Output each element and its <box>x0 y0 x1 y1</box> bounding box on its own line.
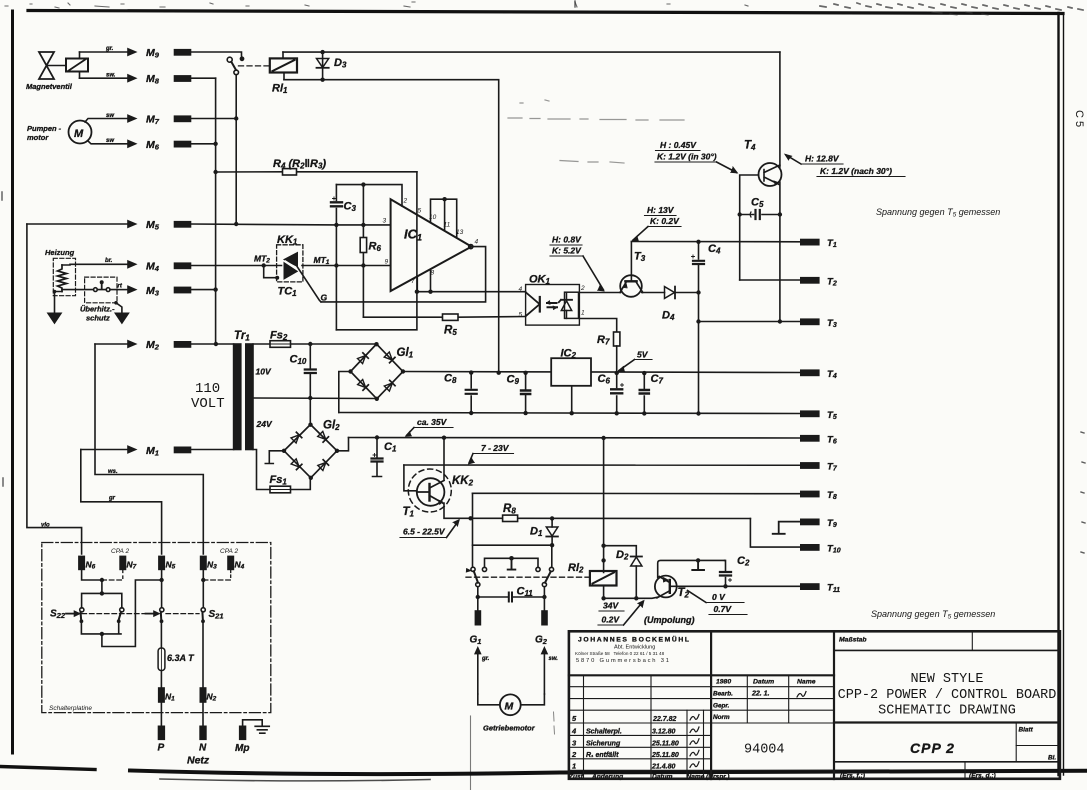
junction supply drop on bus <box>497 371 501 375</box>
transistor T3 <box>620 251 646 297</box>
Massstab strip <box>834 649 1060 651</box>
label 5V <box>618 350 652 372</box>
wire to M5 from vio line <box>27 221 136 227</box>
Mp earth connection <box>243 720 263 727</box>
Gl2 plus riser to 35V bus <box>337 438 349 451</box>
terminal P <box>158 702 165 754</box>
1980 date grid <box>711 675 834 723</box>
terminal M7 <box>146 114 191 127</box>
junction 35V/KK2 <box>442 436 446 440</box>
svg-text:motor: motor <box>27 133 49 142</box>
terminal G1 <box>470 611 482 646</box>
resistor R8 <box>471 503 751 522</box>
junction top/R6 column <box>361 182 365 186</box>
drawing name box CPP 2 <box>834 761 1060 763</box>
terminal G2 <box>535 611 548 646</box>
svg-text:T9: T9 <box>827 518 837 529</box>
svg-text:G1: G1 <box>470 635 482 646</box>
svg-text:4: 4 <box>475 239 479 246</box>
wire row T1 <box>631 241 800 243</box>
RI2 drop from 35V bus <box>601 436 605 440</box>
svg-text:R4 (R2‖R3): R4 (R2‖R3) <box>273 158 326 171</box>
junction M2/A <box>214 342 218 346</box>
svg-text:5870 Gummersbach 31: 5870 Gummersbach 31 <box>576 658 671 664</box>
svg-text:Zust: Zust <box>568 774 584 781</box>
callout H:12.8V K:1.2V(nach 30) <box>785 154 905 177</box>
S21 right pole <box>201 608 223 623</box>
dashed actuator link to RI2 <box>466 576 589 578</box>
svg-text:C5: C5 <box>751 197 764 210</box>
svg-text:21.4.80: 21.4.80 <box>651 763 675 770</box>
svg-text:MT1: MT1 <box>314 255 330 266</box>
svg-text:M1: M1 <box>146 445 159 458</box>
svg-text:9: 9 <box>385 259 389 266</box>
margin tick marks <box>2 1 1085 553</box>
svg-text:K: 0.2V: K: 0.2V <box>650 216 680 226</box>
svg-text:2: 2 <box>580 285 585 292</box>
wire sw to M7 <box>85 113 136 122</box>
wire row T7 <box>404 464 801 466</box>
ground below heater <box>48 313 62 324</box>
svg-text:5: 5 <box>519 312 523 319</box>
svg-text:5V: 5V <box>637 350 649 360</box>
connector N3 <box>201 556 218 570</box>
label S22 with actuator arrow <box>50 609 81 620</box>
svg-text:25.11.80: 25.11.80 <box>651 740 679 747</box>
svg-text:Überhitz.-: Überhitz.- <box>80 305 115 314</box>
terminal M4 <box>146 261 191 274</box>
terminal M8 <box>146 73 191 86</box>
wire M8 to bus A <box>191 77 216 79</box>
thermal switch Ueberhitzschutz <box>62 277 122 322</box>
fuse 6.3A T <box>158 621 195 688</box>
svg-text:R8: R8 <box>503 503 516 516</box>
junction C3/M5 <box>334 223 338 227</box>
10V tap wire <box>253 397 377 400</box>
wire vio M5 feed <box>27 224 82 554</box>
junction M3/A <box>213 287 217 291</box>
svg-text:N6: N6 <box>86 560 96 571</box>
svg-text:10V: 10V <box>256 367 272 377</box>
svg-text:C2: C2 <box>737 555 750 568</box>
heater Heizung <box>45 248 136 313</box>
terminal T8 <box>801 490 837 501</box>
svg-text:Abt. Entwicklung: Abt. Entwicklung <box>614 645 655 651</box>
terminal T11 <box>801 583 840 594</box>
wire pins7/8 to OK1 pin4 <box>417 291 526 293</box>
svg-text:110: 110 <box>195 381 220 397</box>
35V bus <box>349 437 801 440</box>
svg-text:M2: M2 <box>146 339 160 352</box>
KK2 heatsink dashed circle <box>408 469 451 512</box>
capacitor C1 <box>372 435 397 476</box>
svg-text:T11: T11 <box>827 583 840 594</box>
svg-text:TC1: TC1 <box>278 286 298 299</box>
svg-text:N5: N5 <box>166 560 176 571</box>
diode D1 <box>530 516 558 547</box>
svg-text:N: N <box>199 743 207 754</box>
fuse Fs2 <box>253 330 377 348</box>
svg-text:S21: S21 <box>209 609 224 620</box>
S22 loop bottom <box>81 621 121 634</box>
S21 left pole <box>146 608 164 623</box>
svg-text:D1: D1 <box>530 526 543 539</box>
svg-text:S22: S22 <box>50 609 66 620</box>
OK1 pin1 wire to R7 <box>579 319 616 333</box>
svg-text:R₁ entfällt: R₁ entfällt <box>586 752 619 759</box>
svg-text:gr: gr <box>108 496 116 502</box>
svg-text:T2: T2 <box>678 587 690 600</box>
svg-text:C8: C8 <box>444 373 457 386</box>
junction M6/A <box>213 142 217 146</box>
motor loop left with arrow <box>475 647 500 705</box>
wire sw to M8 <box>80 72 136 81</box>
diode D2 <box>616 549 642 601</box>
svg-text:7 - 23V: 7 - 23V <box>481 443 510 453</box>
svg-text:Rl1: Rl1 <box>272 83 288 96</box>
capacitor C7 <box>640 371 664 416</box>
svg-text:MT2: MT2 <box>254 254 270 265</box>
wire pin9 (MT1 line) <box>302 265 391 267</box>
svg-text:R5: R5 <box>444 325 457 338</box>
svg-text:K: 5.2V: K: 5.2V <box>552 246 582 256</box>
fuse Fs1 <box>253 450 310 493</box>
svg-text:Datum: Datum <box>652 774 673 781</box>
main title box <box>834 721 1060 723</box>
svg-text:3: 3 <box>572 738 577 747</box>
capacitor C6 <box>598 371 624 416</box>
switch levers <box>466 569 551 583</box>
callout 0V 0.7V <box>688 591 748 615</box>
svg-text:N4: N4 <box>235 560 245 571</box>
svg-text:Rl2: Rl2 <box>568 562 584 575</box>
svg-text:VOLT: VOLT <box>191 396 225 412</box>
relay RI1 <box>270 52 297 95</box>
svg-text:gr.: gr. <box>481 656 490 662</box>
svg-text:0.7V: 0.7V <box>714 604 733 614</box>
MT2 lower stub <box>264 266 278 278</box>
svg-text:7: 7 <box>411 278 415 285</box>
svg-text:Maßstab: Maßstab <box>839 637 867 644</box>
svg-text:Schalterpl.: Schalterpl. <box>586 729 622 736</box>
svg-text:C9: C9 <box>507 374 520 387</box>
bridge rectifier Gl1 <box>348 342 413 401</box>
earth symbol <box>255 726 269 733</box>
svg-text:T1: T1 <box>403 506 415 519</box>
T1 collector drop from 35V bus <box>443 438 445 480</box>
svg-text:Name: Name <box>797 679 816 686</box>
connector N5 <box>159 556 176 570</box>
Gl2 left stub <box>265 451 284 464</box>
dashed actuator link to RI1 <box>239 65 269 67</box>
svg-text:gr.: gr. <box>105 46 114 52</box>
svg-text:T3: T3 <box>634 251 646 264</box>
motor Pumpenmotor <box>27 121 92 144</box>
T1 base wire from T7 row <box>404 465 417 491</box>
svg-text:sw.: sw. <box>106 72 116 78</box>
svg-text:vio: vio <box>41 523 50 529</box>
svg-text:Spannung gegen T5 gemessen: Spannung gegen T5 gemessen <box>876 207 1000 218</box>
svg-text:22. 1.: 22. 1. <box>751 691 770 698</box>
S22 lower joints <box>80 619 84 623</box>
svg-text:N3: N3 <box>207 560 217 571</box>
feed to S22 loop <box>101 580 103 593</box>
output wire to G line <box>321 247 486 302</box>
svg-text:Schalterplatine: Schalterplatine <box>49 705 92 712</box>
svg-text:T4: T4 <box>744 140 756 153</box>
motor loop right with arrow <box>521 647 558 705</box>
svg-text:D2: D2 <box>616 549 629 562</box>
svg-text:(Ers. d.:): (Ers. d.:) <box>969 773 996 780</box>
svg-text:T2: T2 <box>827 276 837 287</box>
top supply rail <box>283 51 780 53</box>
svg-text:Tr1: Tr1 <box>234 330 250 343</box>
revision grid rows <box>569 687 834 711</box>
svg-text:C4: C4 <box>708 243 721 256</box>
svg-text:C7: C7 <box>651 373 664 386</box>
dashed link N7 <box>102 569 123 580</box>
terminal T7 <box>801 462 838 473</box>
terminal T2 <box>801 276 837 287</box>
capacitor C11 <box>476 586 547 602</box>
switch pole contacts <box>471 567 554 571</box>
svg-text:Pumpen -: Pumpen - <box>27 124 62 133</box>
capacitor C9 <box>507 371 531 416</box>
svg-text:Bearb.: Bearb. <box>713 691 733 698</box>
wire gr to M9 <box>80 46 136 55</box>
connector N1 <box>159 688 175 703</box>
N3 drop to S21 <box>202 569 204 607</box>
svg-text:Änderung: Änderung <box>591 773 623 781</box>
terminal M6 <box>146 139 191 152</box>
Gl1 minus drop <box>339 372 351 413</box>
svg-text:T3: T3 <box>827 318 837 329</box>
wire M4 to triac MT2 <box>191 265 282 267</box>
top wire to pin2 <box>336 185 402 206</box>
N6 drop <box>82 569 102 580</box>
svg-text:SCHEMATIC DRAWING: SCHEMATIC DRAWING <box>878 704 1016 719</box>
svg-text:4: 4 <box>519 286 523 293</box>
svg-text:Bl.: Bl. <box>1048 755 1056 762</box>
scan noise top <box>5 2 1083 15</box>
bridge rectifier Gl2 <box>282 420 340 480</box>
wire rt to M3 <box>117 284 136 293</box>
svg-text:24V: 24V <box>256 419 273 429</box>
wire row T10 <box>750 519 800 548</box>
svg-text:G2: G2 <box>535 635 548 646</box>
svg-text:T10: T10 <box>827 543 841 554</box>
junction R6/pin9 wire <box>361 263 365 267</box>
svg-text:Blatt: Blatt <box>1019 727 1034 734</box>
IC1 pins 10/11/13 strap <box>431 197 457 238</box>
0V bus <box>339 413 801 414</box>
svg-text:Gl2: Gl2 <box>323 420 340 433</box>
svg-text:CPA 2: CPA 2 <box>220 548 238 555</box>
junction MT2 stub <box>262 263 266 267</box>
capacitor C10 <box>290 344 316 425</box>
svg-text:Name: Name <box>687 774 705 781</box>
junction Fs2/C10 <box>308 342 312 346</box>
terminal T1 <box>801 238 837 249</box>
stray dashed artifact <box>508 100 684 163</box>
svg-text:M: M <box>505 701 514 713</box>
T1 emitter to R8 wire <box>444 503 471 518</box>
main 5V bus <box>403 372 801 373</box>
svg-text:Sicherung: Sicherung <box>586 740 621 747</box>
op-amp IC1 <box>383 198 479 292</box>
terminal N <box>199 702 207 754</box>
T4 collector from top rail <box>779 52 781 167</box>
svg-text:C3: C3 <box>344 201 357 214</box>
svg-text:Norm: Norm <box>713 714 730 721</box>
svg-text:Netz: Netz <box>187 755 210 767</box>
terminal T4 <box>801 369 837 380</box>
svg-text:H: 12.8V: H: 12.8V <box>805 154 840 164</box>
terminal M9 <box>146 47 191 60</box>
svg-text:D3: D3 <box>334 57 347 70</box>
svg-text:0 V: 0 V <box>712 592 726 602</box>
junction M7/B <box>234 116 238 120</box>
svg-text:C6: C6 <box>598 373 611 386</box>
svg-text:34V: 34V <box>603 601 619 611</box>
wire M5 to C3 column <box>191 223 337 226</box>
svg-text:M6: M6 <box>146 139 160 152</box>
company box <box>569 674 834 676</box>
svg-text:JOHANNES BOCKEMÜHL: JOHANNES BOCKEMÜHL <box>578 635 691 644</box>
transistor T2 <box>655 576 690 600</box>
junction tap/C10 <box>308 396 312 400</box>
svg-text:ws.: ws. <box>108 469 118 475</box>
svg-text:1980: 1980 <box>716 679 731 686</box>
svg-text:Datum: Datum <box>753 679 774 686</box>
T4 base wire <box>740 175 759 280</box>
svg-text:T1: T1 <box>827 238 837 249</box>
junction T3/T4emitter <box>778 319 782 323</box>
wire gr M1 feed <box>81 446 162 554</box>
motor switch supply rail <box>473 544 553 546</box>
wire row T8 <box>473 492 801 494</box>
connector N7 <box>120 556 137 570</box>
right contact feed <box>551 545 553 567</box>
bus B vertical <box>235 75 237 224</box>
IC1 output bubble pin4 <box>469 245 473 249</box>
svg-text:M3: M3 <box>146 285 160 298</box>
wire pin3 <box>336 224 390 226</box>
valve symbol Magnetventil <box>39 52 66 79</box>
dashed actuator S22-S21 <box>82 613 199 615</box>
svg-text:5: 5 <box>572 714 577 723</box>
svg-text:T5: T5 <box>827 410 837 421</box>
terminal T10 <box>801 543 841 554</box>
transformer Tr1 <box>191 330 273 450</box>
triac TC1 <box>284 252 299 279</box>
svg-text:br.: br. <box>105 258 113 264</box>
svg-text:NEW STYLE: NEW STYLE <box>911 672 984 687</box>
svg-text:sw: sw <box>106 113 114 119</box>
bus A vertical <box>215 78 217 344</box>
T2 collector wire to T11 <box>671 585 801 587</box>
R6 column vertical <box>362 185 364 318</box>
svg-text:C10: C10 <box>290 354 307 367</box>
S22 loop top <box>82 593 122 608</box>
T9 test stub <box>773 522 801 534</box>
junction pin7 rail <box>415 290 419 294</box>
svg-text:M: M <box>74 128 84 140</box>
resistor R4 (R2 parallel R3) <box>213 158 416 175</box>
svg-text:schutz: schutz <box>86 314 110 323</box>
RI1 coil return wire <box>284 80 499 372</box>
resistor R6 <box>360 238 381 254</box>
motor Getriebemotor <box>483 694 536 732</box>
capacitor C5 <box>738 197 783 220</box>
IC1 pin7 stub <box>416 277 418 292</box>
terminal M5 <box>146 219 191 232</box>
svg-text:CPP 2: CPP 2 <box>910 740 955 756</box>
svg-text:M9: M9 <box>146 47 160 60</box>
D2 branch wire <box>604 546 637 556</box>
T4 emitter drop <box>779 182 781 321</box>
G2 drop <box>543 587 545 611</box>
optocoupler OK1 <box>519 274 586 326</box>
svg-text:K: 1.2V (in 30°): K: 1.2V (in 30°) <box>657 152 717 162</box>
wire R4 drop right side of IC1 box <box>336 172 417 330</box>
svg-text:22.7.82: 22.7.82 <box>652 716 676 723</box>
junction R6/pin3 wire <box>361 223 365 227</box>
terminal T5 <box>801 410 837 421</box>
wire ws M2 feed <box>95 341 203 554</box>
solenoid coil of Magnetventil <box>66 52 88 78</box>
svg-text:3: 3 <box>383 218 387 225</box>
connector N4 <box>228 556 245 570</box>
svg-text:M7: M7 <box>146 114 160 127</box>
svg-text:Gl1: Gl1 <box>397 347 414 360</box>
svg-text:Fs2: Fs2 <box>270 330 288 343</box>
callout 34V 0.2V <box>598 601 644 626</box>
wire M3 to bus A <box>191 289 216 291</box>
svg-text:Fs1: Fs1 <box>270 474 288 487</box>
svg-text:IC1: IC1 <box>404 227 422 243</box>
junction C3/MT1 <box>334 263 338 267</box>
svg-text:6.5 - 22.5V: 6.5 - 22.5V <box>403 527 446 537</box>
svg-text:D4: D4 <box>662 310 675 323</box>
capacitor C2 <box>720 555 750 589</box>
wire sw to M6 <box>88 138 136 147</box>
junction R8 wire left <box>468 516 472 520</box>
connector N2 <box>200 621 216 702</box>
svg-text:M8: M8 <box>146 73 160 86</box>
svg-text:1: 1 <box>581 310 585 317</box>
wire M1 to transformer <box>191 449 234 451</box>
dash-dot enclosure Schalterplatine <box>42 543 271 713</box>
wire M2 to transformer <box>191 343 234 345</box>
svg-text:T7: T7 <box>827 462 838 473</box>
svg-text:rt: rt <box>118 284 123 290</box>
svg-text:KK1: KK1 <box>277 234 298 247</box>
svg-text:T8: T8 <box>827 490 837 501</box>
svg-text:C 5: C 5 <box>1073 110 1085 127</box>
svg-text:3.12.80: 3.12.80 <box>652 729 675 736</box>
junction M5/B <box>234 222 238 226</box>
title block outer frame <box>569 631 1060 779</box>
svg-text:G: G <box>321 293 328 303</box>
svg-text:Spannung gegen T5 gemessen: Spannung gegen T5 gemessen <box>871 609 995 620</box>
T2 base riser and top wire <box>658 560 725 577</box>
capacitor C3 <box>331 185 356 330</box>
callout H:0.8V K:5.2V <box>550 235 604 292</box>
svg-text:R6: R6 <box>369 241 382 254</box>
wire row T3 <box>699 321 801 323</box>
svg-text:(Ers. f.:): (Ers. f.:) <box>840 773 865 780</box>
